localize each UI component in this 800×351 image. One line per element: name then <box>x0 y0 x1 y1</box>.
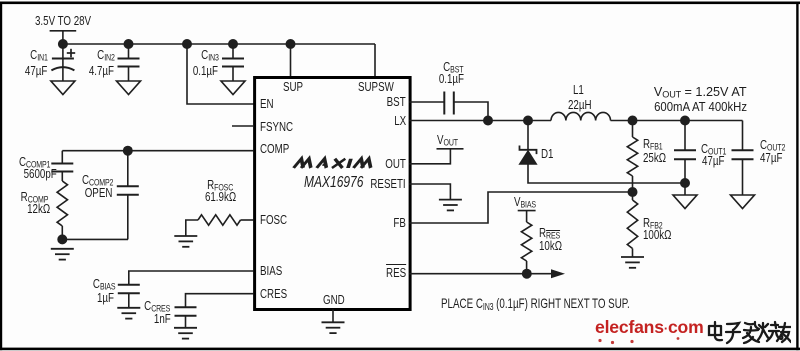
label CIN1 <box>30 48 48 63</box>
label COMP <box>260 142 289 155</box>
wire FOSC stub <box>241 219 254 221</box>
wire CIN1 bottom lead <box>62 59 64 82</box>
label PLACE CIN3 (0.1µF) RIGHT NEXT TO SUP. <box>441 297 630 313</box>
wire SUP drop <box>290 44 292 77</box>
wire VOUT T-bar <box>437 148 464 150</box>
wire LX line <box>410 120 552 122</box>
wire VOUT rail <box>611 120 743 122</box>
capacitor CBST 0.1uF <box>444 92 454 115</box>
label OUT <box>385 157 406 170</box>
wire CIN2 bottom lead <box>128 67 130 82</box>
label 10kΩ <box>539 239 562 252</box>
ground (RFOSC) <box>174 236 197 247</box>
MAXIM logo <box>294 159 374 168</box>
label 47µF <box>760 151 782 164</box>
wire CBIAS bottom lead <box>128 293 130 308</box>
wire CIN3 top lead <box>232 44 234 59</box>
wire COUT2 top lead <box>742 121 744 151</box>
capacitor CIN1 (polarized 47uF) <box>51 59 74 71</box>
label 0.1µF <box>438 72 463 85</box>
label 3.5V TO 28V <box>35 14 91 27</box>
ground (RESETI) <box>439 200 462 211</box>
label RFB1 <box>643 137 663 152</box>
label RESETI <box>371 177 406 190</box>
label BIAS <box>260 264 282 277</box>
label 47µF <box>702 154 724 167</box>
wire input drop <box>62 31 64 44</box>
label SUPSW <box>358 80 394 93</box>
label 4.7µF <box>88 64 113 77</box>
capacitor COUT1 plates <box>674 150 696 159</box>
capacitor CBIAS plates <box>118 285 140 293</box>
ground (COUT1) <box>673 195 697 209</box>
wire EN connection <box>187 44 254 104</box>
label 22µH <box>568 98 592 111</box>
ground (RCOMP) <box>51 249 74 260</box>
capacitor CCRES plates <box>175 307 197 316</box>
junction dot (rail @ CIN3) <box>228 39 238 49</box>
CIN1 polarity + sign <box>67 49 75 57</box>
ground (CCRES) <box>174 328 197 339</box>
label RFOSC <box>208 178 234 193</box>
label FSYNC <box>260 120 293 133</box>
inductor L1 22uH <box>551 112 611 120</box>
ground (RFB2) <box>621 257 644 268</box>
elecfans.com logo (red) <box>595 319 704 337</box>
ground (COUT2) <box>731 195 755 209</box>
label OPEN <box>85 186 113 199</box>
label RFB2 <box>643 216 663 231</box>
wire BST lead <box>410 101 445 103</box>
label 1nF <box>154 312 171 325</box>
junction dot (COMP @ CCOMP2) <box>123 146 133 156</box>
label SUP <box>283 80 303 93</box>
label 47µF <box>25 64 47 77</box>
label L1 <box>573 83 584 96</box>
wire D1 cathode lead <box>527 121 529 150</box>
Chinese characters 电子发烧友 (drawn) <box>707 320 791 347</box>
wire D1 anode to gnd line <box>528 164 685 183</box>
wire RFOSC gnd lead <box>186 220 198 236</box>
junction dot (VOUT @ COUT1) <box>680 116 690 126</box>
label 1µF <box>97 291 114 304</box>
label BST <box>387 95 406 108</box>
wire COMP line <box>62 150 253 152</box>
wire VBIAS T-bar <box>518 210 536 212</box>
label 600mA AT 400kHz <box>654 100 747 113</box>
wire COUT2 bottom lead <box>742 159 744 195</box>
wire CCOMP2 bottom lead <box>127 195 129 240</box>
wire FB line <box>410 192 633 223</box>
label CIN2 <box>97 48 115 63</box>
junction dot (rail @ SUP) <box>286 39 296 49</box>
label 25kΩ <box>643 151 666 164</box>
label FB <box>394 216 406 229</box>
ground (CIN1) <box>51 81 75 95</box>
wire CCOMP2 top lead <box>127 151 129 187</box>
label LX <box>394 114 406 127</box>
label VBIAS <box>514 195 536 210</box>
label CRES <box>260 287 287 300</box>
label COUT1 <box>701 142 726 157</box>
wire COMP bottom link <box>62 238 128 240</box>
resistor RFB1 25k <box>627 121 637 193</box>
label FOSC <box>260 213 287 226</box>
resistor RFB2 100k <box>627 192 637 257</box>
wire CCRES bottom lead <box>185 316 187 328</box>
wire CCOMP1 top lead <box>61 151 63 164</box>
label COUT2 <box>760 138 785 153</box>
diode D1 (schottky) <box>520 146 537 155</box>
label CBST <box>443 60 463 75</box>
junction dot (COUT1 @ gnd line) <box>680 178 690 188</box>
wire BIAS line <box>129 271 254 285</box>
junction dot (LX @ D1) <box>523 116 533 126</box>
ground (CIN3) <box>221 81 245 95</box>
label MAX16976 <box>304 175 363 191</box>
junction dot (RES @ RRES) <box>522 269 532 279</box>
label D1 <box>541 147 553 160</box>
label GND <box>323 293 345 306</box>
label VOUT = 1.25V AT <box>654 85 747 100</box>
label 5600pF <box>24 167 57 180</box>
wire CIN1 top lead <box>62 44 64 59</box>
label CIN3 <box>201 48 219 63</box>
junction dot (rail @ CIN2) <box>124 39 134 49</box>
label 61.9kΩ <box>205 190 236 203</box>
label EN <box>260 97 274 110</box>
label RRES <box>539 226 560 241</box>
label RES <box>386 266 406 279</box>
wire GND lead <box>332 310 334 323</box>
wire CIN3 bottom lead <box>232 67 234 82</box>
wire FSYNC stub <box>232 125 253 127</box>
wire RESETI lead <box>410 184 451 200</box>
wire OUT lead <box>410 149 451 164</box>
label 12kΩ <box>27 202 50 215</box>
label CBIAS <box>92 277 114 292</box>
wire RES line <box>410 273 552 275</box>
wire main supply rail <box>63 43 375 45</box>
wire RCOMP bottom lead <box>61 226 63 239</box>
capacitor CCOMP1 plates <box>51 164 73 172</box>
capacitor CCOMP2 plates <box>117 186 139 195</box>
label CCOMP1 <box>19 155 50 170</box>
wire COUT1 top lead <box>684 121 686 151</box>
wire input T-bar <box>50 30 77 32</box>
op-amp/IC U1 MAX16976 body <box>255 78 411 310</box>
resistor RRES 10k <box>521 211 531 274</box>
junction dot (VOUT @ RFB1) <box>628 116 638 126</box>
wire CCOMP1-RCOMP link <box>61 172 63 182</box>
label VOUT <box>437 133 458 148</box>
ground (CBIAS) <box>117 308 140 319</box>
wire COUT1 bottom lead <box>684 159 686 195</box>
label 100kΩ <box>643 228 671 241</box>
wire SUPSW drop <box>374 44 376 77</box>
ground (CIN2) <box>117 81 141 95</box>
junction dot (RCOMP/CCOMP2 junction) <box>57 234 67 244</box>
resistor RCOMP 12k <box>57 181 67 226</box>
capacitor CIN2 plates <box>118 59 140 67</box>
arrow (RES output) <box>551 269 565 278</box>
label CCRES <box>144 299 170 314</box>
junction dot (rail @ EN tap) <box>182 39 192 49</box>
junction dot (LX @ CBST) <box>483 116 493 126</box>
junction dot (RFB1/RFB2 junction) <box>628 187 638 197</box>
resistor RFOSC 61.9k <box>198 215 241 225</box>
ground (GND pin) <box>322 322 345 333</box>
label RCOMP <box>21 190 49 205</box>
capacitor COUT2 plates <box>732 150 754 159</box>
wire CIN2 top lead <box>128 44 130 59</box>
label 0.1µF <box>193 64 218 77</box>
wire CBST to LX <box>454 102 488 121</box>
label CCOMP2 <box>82 173 113 188</box>
junction dot (rail @ CIN1) <box>58 39 68 49</box>
capacitor CIN3 plates <box>222 59 244 67</box>
wire CRES line <box>186 294 254 308</box>
